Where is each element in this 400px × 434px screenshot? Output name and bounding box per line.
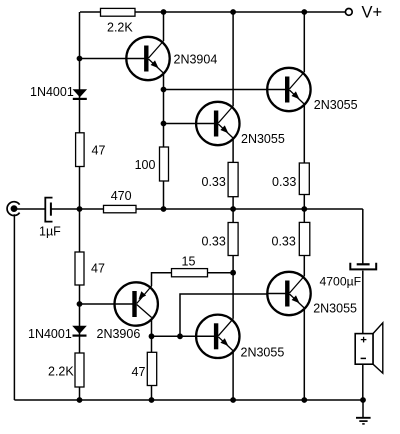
junction bottom rail 1 (77, 397, 83, 403)
wire output column (362, 209, 364, 263)
junction Q1 base (77, 56, 83, 62)
speaker LS1 (355, 323, 383, 373)
resistor R12 2.2K bottom (75, 353, 84, 387)
svg-text:15: 15 (182, 255, 196, 269)
svg-text:47: 47 (132, 365, 146, 379)
resistor R7 0.33 lower left (228, 223, 238, 256)
junction Q6 link (177, 333, 183, 339)
svg-text:0.33: 0.33 (272, 235, 296, 249)
wire Q4 collector drop (151, 318, 153, 337)
wire Q2 base link (164, 123, 218, 125)
junction top rail 3 (301, 9, 307, 15)
svg-text:2N3055: 2N3055 (314, 98, 358, 112)
wire Q3 base link (164, 89, 289, 91)
transistor Q3 2N3055 top right (267, 68, 310, 111)
svg-text:2N3906: 2N3906 (97, 327, 141, 341)
svg-text:4700µF: 4700µF (320, 275, 362, 289)
svg-text:47: 47 (91, 262, 105, 276)
capacitor C1 1uF (45, 198, 52, 222)
diode D2 1N4001 (72, 326, 87, 337)
wire bottom 47 drop (151, 336, 153, 400)
wire Q1 collector (163, 12, 165, 41)
svg-text:1N4001: 1N4001 (28, 327, 72, 341)
svg-text:47: 47 (92, 144, 106, 158)
transistor Q5 2N3055 lower middle (196, 315, 239, 358)
svg-text:0.33: 0.33 (202, 175, 226, 189)
wire input to capacitor (16, 208, 45, 210)
svg-text:0.33: 0.33 (272, 175, 296, 189)
resistor R1 2.2K (101, 8, 136, 16)
resistor R10 15 (172, 269, 208, 277)
resistor R4 470 (104, 205, 137, 212)
svg-text:1µF: 1µF (39, 224, 61, 238)
diode D1 1N4001 (73, 89, 88, 100)
junction mid rail 1 (77, 206, 83, 212)
svg-text:2.2K: 2.2K (48, 365, 74, 379)
junction Q2 base (161, 121, 167, 127)
wire left branch vertical (79, 12, 81, 400)
wire Q1 base (80, 58, 149, 60)
wire mid rail (51, 208, 363, 210)
wire Q3 emitter (303, 104, 305, 209)
wire lower 0.33 left (232, 209, 234, 319)
ground (356, 400, 371, 424)
capacitor C2 4700uF (350, 263, 376, 270)
junction top rail 1 (161, 9, 167, 15)
junction mid rail 2 (161, 206, 167, 212)
junction top rail 2 (230, 9, 236, 15)
transistor Q2 2N3055 upper middle (196, 102, 239, 145)
terminal input (7, 202, 20, 216)
resistor R8 0.33 lower right (299, 222, 310, 255)
svg-text:2N3055: 2N3055 (241, 132, 285, 146)
junction bottom rail 4 (301, 397, 307, 403)
svg-text:2N3904: 2N3904 (174, 52, 218, 66)
resistor R6 0.33 upper right (299, 163, 309, 195)
svg-text:V+: V+ (362, 4, 383, 22)
svg-text:2.2K: 2.2K (107, 21, 133, 35)
terminal V+ (345, 9, 352, 16)
wire lower 0.33 right (303, 209, 305, 276)
junction bottom rail 3 (230, 397, 236, 403)
wire cap to speaker (362, 271, 364, 400)
resistor R5 0.33 upper left (228, 162, 238, 196)
wire Q3 collector (303, 12, 305, 72)
junction mid rail 4 (301, 206, 307, 212)
transistor Q4 2N3906 (115, 282, 158, 325)
transistor Q1 2N3904 (126, 37, 169, 80)
junction Q4 collector (149, 333, 155, 339)
wire Q2 emitter (232, 138, 234, 209)
wire Q5 emitter (232, 351, 234, 400)
junction bottom rail 2 (149, 397, 155, 403)
svg-text:2N3055: 2N3055 (241, 345, 285, 359)
wire Q4 base (80, 303, 137, 305)
wire bottom rail (14, 399, 363, 401)
svg-text:470: 470 (111, 189, 132, 203)
transistor Q6 2N3055 lower right (267, 272, 310, 315)
svg-text:1N4001: 1N4001 (30, 85, 74, 99)
resistor R9 47 lower left (75, 252, 84, 285)
junction mid rail 3 (230, 206, 236, 212)
wire top rail (80, 11, 345, 13)
wire Q1 emitter branch (163, 73, 165, 209)
wire input ground drop (13, 214, 15, 400)
wire Q5 base link (152, 335, 218, 337)
svg-text:2N3055: 2N3055 (313, 302, 357, 316)
junction ground (360, 397, 366, 403)
svg-text:100: 100 (135, 158, 156, 172)
junction 15 resistor (230, 270, 236, 276)
junction Q4 base (77, 301, 83, 307)
wire 15 resistor link (152, 273, 234, 286)
wire Q6 base link (180, 294, 289, 336)
wire Q2 collector (232, 12, 234, 106)
resistor R3 100 (160, 147, 169, 181)
resistor R11 47 bottom (147, 352, 156, 385)
svg-text:0.33: 0.33 (202, 235, 226, 249)
junction Q3 base (161, 87, 167, 93)
resistor R2 47 (76, 133, 85, 167)
wire Q6 emitter (303, 308, 305, 400)
